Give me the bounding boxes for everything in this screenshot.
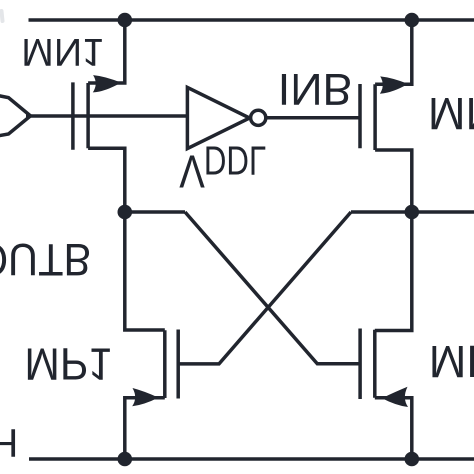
- wire cross-couple OUT to MP1 gate: [178, 212, 351, 364]
- svg-text:V: V: [179, 146, 205, 198]
- op-amp inverter U1 triangle: [187, 87, 249, 148]
- faint clipped glyph top-left: [2, 11, 3, 21]
- svg-text:MP2: MP2: [429, 336, 474, 387]
- svg-text:DDL: DDL: [204, 138, 266, 184]
- transistor MN1 channel bar: [86, 83, 90, 148]
- transistor MN1 source arrow: [93, 75, 121, 92]
- svg-text:OUTB: OUTB: [0, 234, 91, 285]
- wire input IN from pin to inverter: [26, 114, 187, 118]
- transistor MP2 source arrow: [382, 387, 408, 407]
- svg-text:MN2: MN2: [428, 88, 474, 139]
- transistor MP2 gate bar: [358, 329, 362, 400]
- node junction dot top-right: [405, 13, 420, 28]
- wire MN2 drain lead to top rail: [375, 20, 412, 84]
- wire MP2 source lead to bottom rail: [375, 398, 412, 459]
- transistor MP2 channel bar: [373, 330, 377, 398]
- wire bottom rail VDDH: [29, 457, 474, 461]
- wire cross-couple OUTB to MP2 gate: [185, 212, 360, 364]
- node junction dot bottom-right: [405, 452, 420, 467]
- wire node OUTB horizontal: [125, 210, 185, 214]
- wire MP2 drain lead from node OUT: [375, 212, 412, 331]
- wire node OUT horizontal: [351, 210, 474, 214]
- wire INB inverter output to MN2 gate: [266, 116, 360, 120]
- wire MN2 source lead to node OUT: [375, 150, 412, 212]
- node junction dot top-left: [118, 13, 133, 28]
- transistor MP1 channel bar: [163, 330, 167, 398]
- svg-text:INB: INB: [278, 64, 353, 113]
- node OUTB junction dot: [118, 205, 133, 220]
- transistor MP1 source arrow: [132, 388, 158, 406]
- wire MP1 drain lead from node OUTB: [125, 212, 165, 330]
- wire MP1 source lead to bottom rail: [125, 398, 165, 459]
- wire MN1 source lead to node OUTB: [88, 148, 125, 212]
- transistor MN2 gate bar: [358, 84, 362, 148]
- transistor MP1 gate bar: [176, 330, 180, 399]
- transistor MN1 gate bar: [71, 82, 75, 149]
- svg-text:MP1: MP1: [24, 339, 112, 390]
- transistor MN2 source arrow: [380, 76, 408, 93]
- svg-text:MN1: MN1: [21, 30, 104, 73]
- wire top rail VSS: [29, 18, 474, 22]
- pin IN: [0, 95, 31, 136]
- transistor MN2 channel bar: [373, 84, 377, 150]
- node junction dot bottom-left: [118, 452, 133, 467]
- inverter U1 output bubble: [251, 110, 266, 125]
- svg-text:H: H: [0, 420, 18, 464]
- wire MN1 drain lead to top rail: [88, 20, 125, 83]
- node OUT junction dot: [405, 205, 420, 220]
